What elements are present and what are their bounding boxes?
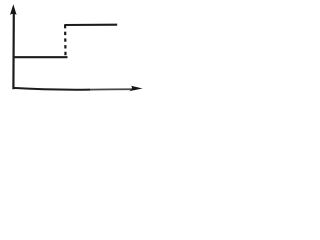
upper step segment: [64, 24, 117, 26]
x-axis shaft left: [13, 88, 90, 90]
x-axis arrowhead: [129, 86, 143, 92]
y-axis: [12, 12, 15, 89]
lower step segment: [13, 56, 68, 58]
x-axis shaft right (fainter): [90, 88, 136, 90]
y-axis arrowhead: [10, 4, 17, 15]
dashed riser: [64, 25, 67, 58]
